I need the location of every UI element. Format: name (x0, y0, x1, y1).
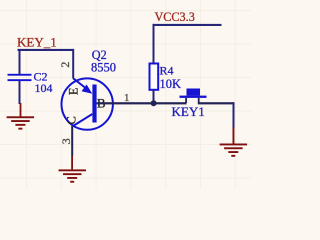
push button KEY1 contact bar (180, 96, 207, 98)
wire button right horizontal (198, 102, 235, 104)
ground G1 (7, 103, 34, 130)
wire right vertical (233, 102, 235, 128)
wire pin2 stub (72, 49, 74, 79)
transistor Q2 emitter diagonal with arrow (73, 78, 92, 94)
wire capacitor to ground (19, 81, 21, 104)
capacitor C2 plates (8, 74, 32, 81)
resistor R4 (150, 64, 159, 90)
wire base to junction (97, 102, 187, 104)
svg-text:R4: R4 (160, 64, 174, 78)
ground G2 (59, 156, 87, 183)
wire collector to ground (71, 126, 73, 156)
wire resistor to junction (153, 90, 155, 103)
wire left vertical to capacitor (19, 49, 21, 74)
wire KEY_1 horizontal (18, 49, 75, 51)
svg-text:C: C (65, 116, 79, 124)
junction dot (151, 100, 157, 106)
ground G3 (220, 144, 248, 157)
wire right vertical red portion (233, 128, 235, 144)
transistor Q2 circle (61, 78, 112, 129)
transistor Q2 collector diagonal (72, 114, 92, 127)
svg-text:VCC3.3: VCC3.3 (155, 10, 195, 24)
push button KEY1 right stub (198, 98, 200, 103)
svg-text:8550: 8550 (91, 61, 116, 75)
svg-text:E: E (67, 87, 81, 95)
wire VCC horizontal (153, 24, 222, 26)
wire VCC vertical (153, 24, 155, 64)
push button KEY1 cap (187, 89, 201, 96)
svg-text:2: 2 (58, 62, 72, 68)
svg-text:3: 3 (59, 138, 73, 144)
svg-text:104: 104 (35, 81, 53, 95)
svg-text:KEY_1: KEY_1 (17, 34, 57, 49)
svg-text:KEY1: KEY1 (172, 104, 205, 119)
transistor Q2 base bar (92, 85, 96, 123)
push button KEY1 left stub (185, 98, 187, 103)
svg-text:10K: 10K (160, 77, 182, 91)
